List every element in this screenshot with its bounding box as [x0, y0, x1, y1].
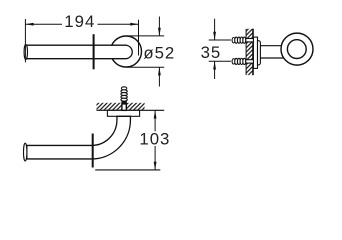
tick mark on bar (plan)	[93, 34, 95, 69]
dimension 103 : bottom arrow	[154, 162, 157, 170]
post bar bottom line (side)	[260, 57, 284, 59]
top screw : thread coils	[235, 37, 238, 43]
dimension 194 : left arrow	[25, 23, 33, 26]
ceiling section (hatched)	[97, 103, 145, 111]
bar end cap arc inside circle	[126, 45, 133, 59]
dimension ø52 : bottom extension line	[127, 66, 165, 68]
dimension 35 : bottom arrow line	[214, 61, 216, 79]
dimension 194 : dim line left segment	[25, 23, 62, 25]
dimension 103 : lower dim line segment	[154, 146, 156, 170]
svg-text:35: 35	[201, 43, 222, 62]
dimension 103 : top arrow	[154, 110, 157, 118]
screw (front) : thread coils	[121, 90, 127, 93]
screw (front) : collar	[121, 101, 126, 104]
dimension ø52 : top arrow line	[158, 17, 160, 36]
wall left edge line	[245, 29, 247, 75]
svg-text:194: 194	[64, 12, 95, 31]
dimension 35 : bottom extension line	[209, 60, 231, 62]
plate cover (side)	[258, 41, 261, 65]
svg-text:103: 103	[139, 129, 170, 148]
ring outer circle (side)	[281, 33, 313, 65]
elbow tube	[27, 116, 131, 159]
dimension ø52 : top extension line	[127, 35, 165, 37]
bar top line	[27, 44, 126, 46]
dimension 35 : top arrow line	[214, 19, 216, 40]
bar left end cap ellipse (plan)	[24, 45, 27, 60]
dimension ø52 : top arrow	[158, 28, 161, 36]
holder ring circle (plan)	[111, 36, 142, 67]
mounting plate (front)	[107, 110, 139, 116]
wall section (hatched)	[246, 29, 253, 75]
dimension 194 : right arrow	[130, 23, 138, 26]
bar left end cap ellipse (front)	[24, 143, 27, 161]
post bar top line (side)	[260, 45, 282, 47]
top screw : head	[232, 38, 235, 43]
dimension ø52 : bottom arrow line	[158, 67, 160, 86]
top screw : shank through wall	[246, 39, 254, 42]
dimension 194 : right extension line	[138, 20, 140, 56]
bottom screw : shank through wall	[246, 60, 254, 63]
tick mark on bar (front)	[92, 134, 94, 168]
screw (front) : shank through ceiling	[122, 104, 126, 110]
dimension 194 : dim line right segment	[98, 23, 139, 25]
dimension 35 : top extension line	[209, 39, 231, 41]
bar (plan) body	[27, 46, 126, 58]
dimension 35 : top arrow	[213, 32, 216, 40]
mounting plate (side)	[253, 37, 257, 68]
ceiling face line / 103 top extension line	[97, 109, 165, 111]
dimension 35 : bottom arrow	[213, 61, 216, 69]
wall face line	[252, 29, 254, 75]
dimension 103 : bottom extension line	[95, 169, 160, 171]
dimension 194 : left extension line	[24, 19, 26, 62]
dimension ø52 : bottom arrow	[158, 67, 161, 75]
dimension 103 : upper dim line segment	[154, 110, 156, 131]
bottom screw : thread coils	[235, 58, 238, 64]
bar bottom line	[27, 58, 126, 60]
bottom screw : head	[232, 59, 235, 64]
svg-text:ø52: ø52	[143, 43, 175, 62]
screw (front) : head	[121, 87, 126, 90]
ring inner circle (side)	[287, 40, 306, 59]
